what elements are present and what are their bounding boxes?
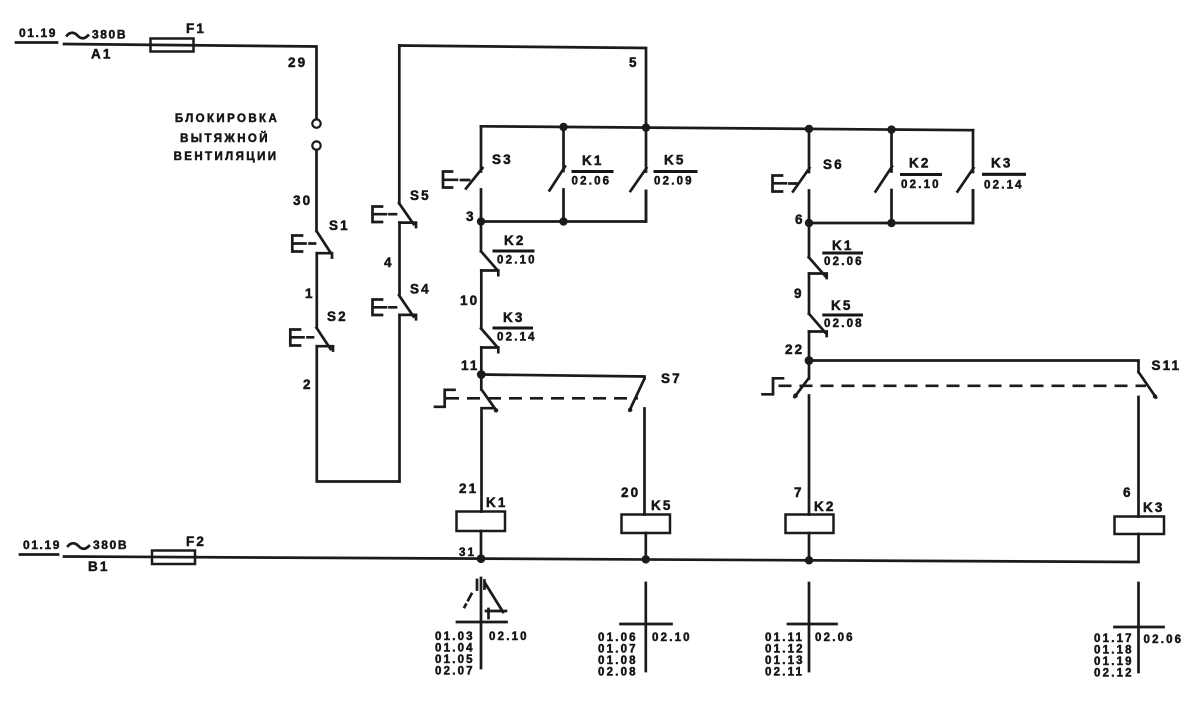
svg-text:01.11: 01.11	[765, 632, 804, 644]
contact K1 02.06	[550, 127, 614, 222]
ref labels K2	[765, 632, 855, 679]
switch S7 link dashed	[446, 397, 638, 400]
svg-text:01.07: 01.07	[598, 644, 638, 656]
svg-text:02.10: 02.10	[497, 255, 537, 267]
switch S11 pole 1	[795, 361, 810, 515]
svg-text:S3: S3	[492, 152, 513, 167]
contact K5 02.09	[631, 128, 698, 222]
wire	[315, 150, 318, 231]
svg-text:S6: S6	[823, 157, 844, 172]
svg-text:S5: S5	[410, 188, 431, 203]
svg-text:01.04: 01.04	[435, 643, 475, 655]
ref mark fan node 31	[457, 578, 507, 668]
pushbutton S5	[373, 46, 431, 228]
svg-text:4: 4	[384, 255, 394, 270]
svg-text:6: 6	[1123, 485, 1133, 500]
junction	[887, 219, 895, 227]
svg-text:01.17: 01.17	[1094, 633, 1134, 645]
wire node 1	[315, 253, 318, 328]
ref labels node 31	[435, 631, 529, 678]
svg-text:S11: S11	[1152, 358, 1182, 373]
svg-text:02.08: 02.08	[598, 667, 638, 679]
pushbutton S6	[773, 129, 844, 223]
wire node 22	[808, 332, 811, 361]
svg-text:21: 21	[459, 481, 478, 496]
svg-text:S4: S4	[410, 282, 431, 297]
pushbutton S3	[443, 126, 513, 221]
svg-text:S7: S7	[661, 371, 682, 386]
svg-text:В1: В1	[88, 559, 109, 574]
svg-text:2: 2	[303, 377, 313, 392]
junction	[642, 123, 650, 131]
switch S11 pole 2	[809, 361, 1156, 517]
svg-text:ВЫТЯЖНОЙ: ВЫТЯЖНОЙ	[180, 132, 270, 145]
pushbutton S2	[290, 309, 347, 351]
junction node 22	[805, 356, 814, 365]
ref labels K5	[598, 632, 692, 679]
wire top bus	[481, 126, 973, 130]
svg-text:380В: 380В	[93, 538, 128, 552]
svg-text:K3: K3	[503, 310, 524, 325]
switch S11 actuator	[763, 378, 784, 394]
wire to bottom U	[398, 315, 401, 482]
svg-text:F2: F2	[186, 534, 206, 549]
svg-text:K3: K3	[991, 156, 1012, 171]
contact K1 02.06 (NC)	[809, 223, 864, 278]
svg-text:01.19: 01.19	[19, 26, 57, 40]
wire node 11	[480, 348, 483, 375]
label blocking text	[174, 113, 280, 163]
switch S7 pole 2	[481, 375, 644, 515]
junction	[559, 217, 567, 225]
svg-text:K2: K2	[909, 156, 930, 171]
wire coil K1 to bus	[480, 531, 483, 559]
fuse F1	[151, 39, 194, 52]
svg-text:1: 1	[305, 286, 315, 301]
svg-text:02.08: 02.08	[824, 318, 864, 330]
contact K5 02.08 (NC)	[809, 298, 864, 336]
svg-text:02.10: 02.10	[489, 631, 529, 643]
svg-text:02.11: 02.11	[765, 667, 804, 679]
pushbutton S4	[373, 282, 431, 320]
svg-text:01.12: 01.12	[765, 644, 805, 656]
svg-text:380В: 380В	[92, 28, 127, 42]
svg-text:БЛОКИРОВКА: БЛОКИРОВКА	[175, 113, 279, 125]
switch S11 link dashed	[779, 384, 1147, 387]
junction node 3	[477, 217, 485, 225]
coil K5	[622, 515, 671, 534]
svg-text:20: 20	[621, 485, 640, 500]
coil K2	[786, 515, 834, 534]
ref labels K3	[1094, 633, 1183, 680]
svg-text:K1: K1	[832, 238, 853, 253]
wire coil K2 to bus	[808, 533, 811, 560]
switch S7 actuator	[435, 390, 455, 407]
svg-text:02.06: 02.06	[815, 632, 855, 644]
svg-text:5: 5	[629, 55, 639, 70]
svg-text:01.08: 01.08	[598, 655, 638, 667]
svg-text:K2: K2	[814, 499, 835, 514]
wire bottom bus	[64, 534, 1139, 562]
AC symbol ~	[68, 543, 89, 549]
svg-text:02.07: 02.07	[435, 666, 475, 678]
ref mark K2	[788, 583, 837, 671]
ref mark K5	[621, 583, 672, 671]
svg-text:K2: K2	[504, 233, 525, 248]
svg-text:10: 10	[460, 293, 479, 308]
junction	[887, 125, 895, 133]
wire lower bus right group	[809, 191, 973, 224]
svg-text:29: 29	[288, 55, 307, 70]
svg-text:01.19: 01.19	[1094, 656, 1134, 668]
svg-text:02.06: 02.06	[824, 256, 864, 268]
junction node 6	[805, 219, 813, 227]
svg-text:F1: F1	[186, 21, 206, 36]
contact K2 02.10	[876, 130, 943, 223]
wire node 9	[808, 274, 811, 314]
svg-text:01.13: 01.13	[765, 655, 805, 667]
wire node 10	[480, 271, 483, 329]
wire node 2 down and across	[317, 346, 400, 481]
ref mark K3	[1115, 583, 1164, 672]
svg-text:02.06: 02.06	[1144, 634, 1184, 646]
junction node 31	[477, 554, 486, 563]
svg-text:02.10: 02.10	[652, 632, 692, 644]
svg-text:01.05: 01.05	[435, 654, 475, 666]
svg-text:K5: K5	[831, 298, 852, 313]
svg-text:01.06: 01.06	[598, 632, 638, 644]
svg-text:7: 7	[794, 485, 804, 500]
svg-text:S1: S1	[329, 218, 350, 233]
svg-text:02.12: 02.12	[1094, 668, 1134, 680]
AC symbol ~	[67, 33, 88, 39]
svg-text:S2: S2	[327, 309, 348, 324]
contact K3 02.14 (NC)	[481, 310, 537, 352]
svg-text:02.14: 02.14	[497, 332, 537, 344]
switch S7 pole 1 (NC)	[481, 375, 496, 512]
wire lower bus left group	[481, 191, 646, 222]
net label 01.19 (bottom)	[20, 538, 61, 555]
wire top feed	[64, 44, 317, 119]
wire node 4	[398, 223, 401, 296]
wire top link to node 5	[399, 46, 646, 128]
svg-text:9: 9	[794, 286, 804, 301]
svg-text:02.06: 02.06	[572, 176, 612, 188]
svg-text:01.19: 01.19	[23, 538, 61, 552]
svg-text:K1: K1	[486, 495, 507, 510]
svg-text:K1: K1	[582, 153, 603, 168]
svg-text:22: 22	[785, 342, 804, 357]
wire coil K5 to bus	[644, 533, 647, 560]
pushbutton S1	[292, 218, 349, 258]
svg-text:30: 30	[293, 193, 312, 208]
contact K3 02.14	[958, 130, 1027, 223]
svg-text:K3: K3	[1143, 500, 1164, 515]
connector (blocking of exhaust ventilation)	[312, 119, 320, 127]
svg-text:02.09: 02.09	[654, 176, 694, 188]
junction	[805, 125, 813, 133]
svg-text:01.03: 01.03	[435, 631, 475, 643]
contact K2 02.10 (NC)	[481, 222, 537, 276]
coil K3	[1115, 517, 1165, 535]
junction	[559, 123, 567, 131]
net label 01.19 (top)	[16, 26, 57, 43]
svg-text:01.18: 01.18	[1094, 645, 1134, 657]
junction node 11	[477, 370, 486, 379]
junction	[642, 555, 650, 563]
svg-text:K5: K5	[651, 498, 672, 513]
svg-text:ВЕНТИЛЯЦИИ: ВЕНТИЛЯЦИИ	[174, 151, 279, 163]
svg-text:02.10: 02.10	[901, 179, 941, 191]
fuse F2	[152, 551, 195, 565]
svg-text:6: 6	[795, 212, 805, 227]
svg-text:K5: K5	[664, 153, 685, 168]
svg-text:02.14: 02.14	[984, 180, 1024, 192]
svg-text:3: 3	[466, 209, 476, 224]
svg-text:11: 11	[461, 358, 479, 373]
coil K1	[457, 512, 506, 532]
svg-text:A1: A1	[91, 47, 112, 62]
junction	[805, 556, 813, 564]
